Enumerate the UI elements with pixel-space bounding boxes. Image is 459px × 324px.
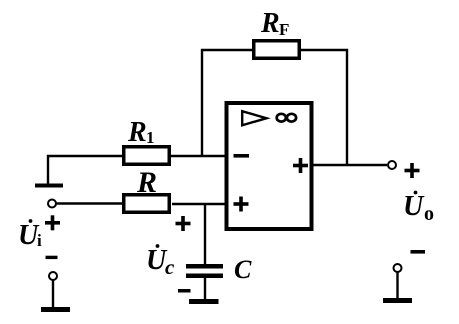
capacitor C bottom plate (186, 274, 223, 279)
resistor R1 (124, 147, 170, 165)
ground top-left (35, 184, 63, 188)
op-amp output plus sign (293, 158, 308, 173)
svg-text:F: F (279, 20, 289, 39)
terminal Ui plus (48, 200, 56, 208)
label Uo plus sign (405, 163, 420, 178)
ground Ui (41, 307, 70, 312)
terminal Uo plus (388, 161, 396, 169)
op-amp minus input sign (234, 154, 250, 158)
label Uo minus sign (411, 250, 426, 254)
svg-text:C: C (234, 255, 252, 284)
wire RF left lead (202, 50, 252, 157)
label UC minus (178, 289, 191, 293)
svg-text:R: R (260, 8, 280, 39)
wire Ui ground stub (52, 280, 54, 308)
wire plus input (172, 203, 227, 205)
label Ui minus sign (46, 256, 58, 259)
resistor RF (254, 41, 300, 59)
op-amp U1 box (227, 103, 312, 229)
ground Uo (383, 298, 412, 303)
svg-text:i: i (37, 231, 42, 250)
wire Uo ground stub (396, 272, 398, 299)
svg-text:U: U (403, 191, 425, 222)
ground capacitor (189, 299, 219, 304)
capacitor C top plate (186, 264, 223, 269)
label UC plus (176, 216, 191, 231)
terminal Uo minus (394, 264, 402, 272)
svg-text:1: 1 (146, 128, 155, 147)
wire minus input (171, 155, 227, 157)
svg-text:o: o (424, 203, 434, 225)
svg-text:R: R (136, 166, 157, 199)
resistor R (124, 195, 170, 213)
svg-text:R: R (127, 117, 147, 148)
wire capacitor bottom stub (204, 277, 206, 301)
op-amp triangle (242, 111, 266, 125)
op-amp infinity (277, 114, 286, 122)
svg-text:c: c (165, 255, 175, 279)
wire RF right lead (301, 50, 347, 166)
wire R1 left to ground (48, 156, 122, 186)
label Ui plus sign (45, 215, 60, 230)
wire R left lead (56, 202, 122, 204)
wire output (313, 164, 387, 166)
terminal Ui minus (49, 272, 57, 280)
op-amp plus input sign (234, 197, 249, 212)
wire capacitor top stub (204, 204, 206, 265)
